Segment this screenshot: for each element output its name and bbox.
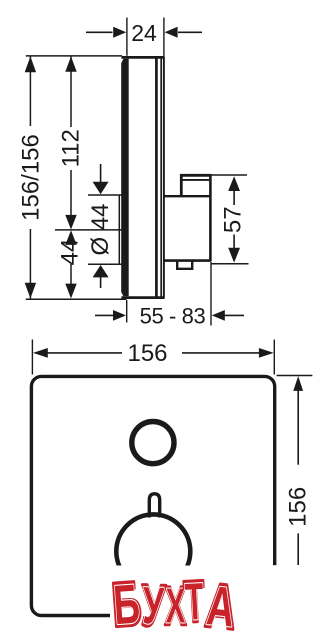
front view: dim 156 top line + arrows xyxy=(47,352,122,354)
dim 55-83 left extension line xyxy=(126,300,128,323)
svg-text:57: 57 xyxy=(220,206,247,233)
front view: plate outline xyxy=(31,376,274,615)
svg-text:55 - 83: 55 - 83 xyxy=(140,303,206,328)
dim 112 top arrow xyxy=(65,56,76,71)
watermark white cover right xyxy=(262,565,331,640)
svg-text:112: 112 xyxy=(57,129,84,167)
bottom-left extension line (plate bottom) xyxy=(26,298,127,300)
dim 55-83 right extension line xyxy=(210,262,212,326)
knob bottom extension line xyxy=(88,263,122,265)
side view: plate back edge (double) xyxy=(160,57,162,298)
dim 24 extension line left xyxy=(126,18,128,56)
knob top extension line xyxy=(88,194,122,196)
front view: right dim 156 line + arrow xyxy=(297,391,299,465)
top-left extension line (plate top) xyxy=(26,55,122,57)
side view: plate front face (thick bar) xyxy=(121,59,129,297)
svg-text:Ø 44: Ø 44 xyxy=(87,203,114,255)
svg-text:Б: Б xyxy=(111,572,141,636)
dim 156/156 bottom arrow xyxy=(25,283,36,299)
front view: handle circle xyxy=(116,514,190,588)
front view: shut-off button circle xyxy=(132,422,174,464)
watermark BUKHTA xyxy=(109,568,241,640)
dim 044 bottom arrow xyxy=(100,277,102,288)
body step: left edge xyxy=(180,174,183,196)
dim 24 extension line right xyxy=(163,18,165,57)
dim 55-83 right arrow xyxy=(224,314,244,316)
dim 57 line+arrows xyxy=(233,190,235,205)
svg-text:156/156: 156/156 xyxy=(18,134,45,221)
svg-text:У: У xyxy=(142,577,166,636)
dim 24 left arrow xyxy=(86,31,113,33)
svg-text:Т: Т xyxy=(184,573,206,633)
dim 55-83 left arrow xyxy=(95,314,114,316)
svg-text:156: 156 xyxy=(284,487,311,527)
dim 112 bottom arrow xyxy=(65,215,76,230)
body step: top edge xyxy=(180,174,212,177)
side view: plate inner line xyxy=(155,58,158,297)
mid extension line (112/44 boundary) xyxy=(55,229,127,231)
body step: inner line xyxy=(183,179,210,181)
front view: right dim 156 extension line xyxy=(277,375,313,377)
svg-text:Х: Х xyxy=(166,579,186,634)
front view: handle pin xyxy=(149,494,159,518)
dim 44 top arrow xyxy=(65,230,76,245)
svg-text:44: 44 xyxy=(56,239,83,266)
side view: plate top edge xyxy=(121,56,164,59)
watermark white cover middle xyxy=(110,566,264,640)
body tab (bottom) xyxy=(177,262,192,269)
dim 044 top arrow xyxy=(100,164,102,182)
svg-text:156: 156 xyxy=(127,340,167,367)
body: right edge xyxy=(209,175,212,262)
svg-text:24: 24 xyxy=(131,20,157,46)
side view: knob front profile line xyxy=(118,196,120,264)
body: bottom edge xyxy=(164,259,211,262)
dim 112 line xyxy=(70,57,72,128)
side view: plate bottom edge xyxy=(121,296,164,299)
body: top edge xyxy=(165,195,211,197)
dim 24 right arrow xyxy=(178,31,202,33)
dim 44 bottom arrow xyxy=(65,284,76,299)
dim 57 bottom extension line xyxy=(211,263,248,265)
dim 156/156 line xyxy=(29,57,31,127)
dim 57 top extension line xyxy=(211,174,247,176)
dim 156/156 top arrow xyxy=(25,56,36,72)
front view: dim 156 top extension lines xyxy=(31,340,33,375)
